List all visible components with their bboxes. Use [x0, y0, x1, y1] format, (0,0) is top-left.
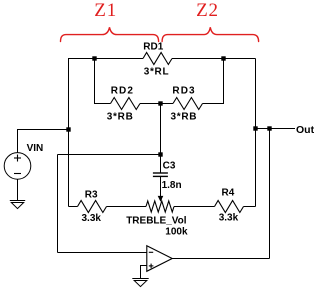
brace Z1 [61, 27, 159, 41]
op-amp minus input sign [149, 251, 153, 253]
wire opamp plus input to ground [141, 266, 147, 279]
svg-text:VIN: VIN [27, 143, 44, 154]
svg-text:3*RL: 3*RL [144, 67, 170, 78]
wire feedback vertical [57, 155, 59, 253]
brace Z2 [162, 27, 259, 41]
wire top horizontal net right of RD1 [172, 58, 256, 60]
potentiometer TREBLE_Vol track [146, 201, 174, 212]
svg-text:Out: Out [296, 124, 315, 136]
junction node feedback to C3 branch [158, 152, 162, 156]
wire Out vertical down [269, 129, 271, 259]
svg-text:3.3k: 3.3k [82, 213, 102, 224]
wire inverting input [58, 252, 147, 254]
wire right vertical (top to R4) [255, 59, 257, 207]
wire top horizontal net left of RD1 [68, 58, 143, 60]
wire center junction to RD3 [161, 103, 174, 105]
svg-text:Z2: Z2 [196, 0, 219, 21]
wire R4 right lead [244, 206, 256, 208]
wire R3 left lead [69, 206, 78, 208]
junction node RD2-RD3 center [158, 101, 162, 105]
resistor RD1 [143, 53, 172, 65]
wire C3 bottom to wiper arrow [160, 176, 162, 196]
voltage source VIN circle [4, 153, 31, 180]
VIN plus sign [14, 155, 21, 162]
ground symbol under VIN [10, 201, 25, 209]
wire feedback horizontal [58, 154, 161, 156]
wire RD2 to center junction [140, 103, 161, 105]
resistor RD2 [111, 98, 141, 110]
svg-text:RD1: RD1 [143, 42, 163, 53]
ground symbol under op-amp plus input [132, 279, 148, 287]
resistor R3 [78, 201, 107, 213]
op-amp U1 triangle [147, 246, 172, 272]
junction node VIN to left vertical [66, 127, 70, 131]
wire opamp output bottom [172, 258, 269, 260]
svg-text:3*RB: 3*RB [107, 112, 134, 123]
resistor RD3 [173, 98, 203, 110]
VIN minus sign [14, 173, 21, 175]
wire R3 to pot [107, 206, 147, 208]
svg-text:100k: 100k [165, 227, 188, 238]
svg-text:R4: R4 [222, 188, 235, 199]
wire RD3 right branch up [203, 59, 224, 104]
wire RD2 left branch [95, 59, 111, 104]
junction node at RD2 branch on top wire [92, 56, 96, 60]
svg-text:3*RB: 3*RB [171, 112, 198, 123]
wire center junction to C3 top [160, 104, 162, 174]
junction node Out at output vertical [267, 126, 271, 130]
op-amp plus input sign [149, 264, 154, 269]
svg-text:Z1: Z1 [94, 0, 117, 21]
wire Out stub [256, 128, 296, 130]
wire pot to R4 [174, 206, 215, 208]
svg-text:1.8n: 1.8n [162, 180, 182, 191]
svg-text:TREBLE_Vol: TREBLE_Vol [126, 215, 187, 226]
svg-text:RD3: RD3 [172, 86, 195, 97]
potentiometer wiper arrowhead [158, 196, 164, 202]
svg-text:RD2: RD2 [111, 86, 134, 97]
resistor R4 [215, 201, 244, 213]
wire left vertical (VIN node to R3) [68, 59, 70, 207]
junction node at RD3 branch on top wire [221, 56, 225, 60]
svg-text:C3: C3 [163, 160, 176, 171]
capacitor C3 plates [153, 173, 168, 176]
wire VIN to left vertical [18, 130, 69, 153]
svg-text:R3: R3 [85, 190, 98, 201]
junction node Out at right vertical [253, 126, 257, 130]
wire VIN below circle [17, 179, 19, 200]
svg-text:3.3k: 3.3k [219, 213, 239, 224]
